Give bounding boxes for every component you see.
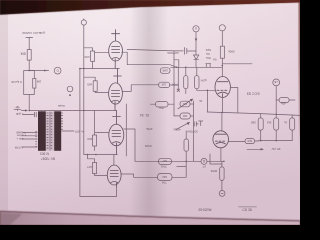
secondary winding bar <box>54 111 61 151</box>
coupling cap C1 <box>174 48 196 55</box>
svg-text:45k: 45k <box>281 102 286 106</box>
bus y=154.5 <box>84 155 118 166</box>
svg-text:560: 560 <box>250 121 255 125</box>
Ra wiring <box>84 48 109 69</box>
svg-text:20/700A: 20/700A <box>187 130 198 134</box>
terminal T1 <box>81 20 86 25</box>
svg-text:2M: 2M <box>36 79 41 83</box>
svg-text:1k: 1k <box>284 121 288 125</box>
bus wire y=110.5 <box>29 110 116 112</box>
Rb wiring <box>84 77 109 92</box>
cathode resistor Rk <box>220 167 224 181</box>
svg-text:?041: ?041 <box>160 165 167 169</box>
terminal T3 <box>219 25 225 31</box>
svg-text:500k: 500k <box>228 49 235 53</box>
RC parallel loop wires <box>24 71 35 111</box>
coupling bus y=68.5 <box>80 68 120 70</box>
Rk wires <box>221 161 223 190</box>
svg-text:?04: ?04 <box>162 181 167 185</box>
F leads <box>174 101 194 161</box>
terminal T4 <box>273 79 280 86</box>
grid resistor Rd <box>93 162 97 173</box>
svg-text:ECC 83: ECC 83 <box>247 92 260 96</box>
400X stubs <box>185 131 187 177</box>
divider resistor C (vertical) <box>184 76 188 89</box>
Rd wiring <box>88 155 108 176</box>
svg-text:#tut5t-b3: #tut5t-b3 <box>198 208 211 212</box>
annotation arrow 25mV <box>247 148 261 150</box>
stub pair near V5 grid <box>177 165 186 167</box>
pill1 resistor on bus <box>159 158 172 164</box>
wire T1 down <box>83 25 85 110</box>
svg-text:CD 38: CD 38 <box>242 208 252 212</box>
svg-text:042: 042 <box>162 175 167 179</box>
svg-text:X004: X004 <box>144 144 151 148</box>
input terminal bar <box>26 36 33 38</box>
V5 plate from bus <box>221 112 223 131</box>
transformer core lines <box>50 112 51 151</box>
svg-text:0A: 0A <box>206 52 210 56</box>
svg-text:6k8: 6k8 <box>247 139 252 143</box>
V5 grid branch <box>210 154 222 164</box>
dropper resistor 3 <box>290 118 295 130</box>
divider top bus <box>171 66 223 68</box>
pot arrow 2 <box>176 123 187 129</box>
T3 wire <box>221 31 223 46</box>
supply bus y=112.2 <box>207 112 300 115</box>
dropper stubs <box>261 114 293 141</box>
svg-text:3054: 3054 <box>210 169 217 173</box>
tap labels column <box>14 130 26 149</box>
svg-text:?04: ?04 <box>159 106 164 110</box>
pill H6 feedback resistor <box>245 139 255 144</box>
divider resistor D (vertical) <box>195 76 199 89</box>
bus2 y=161.3 <box>135 160 224 162</box>
svg-text:a: a <box>195 26 197 30</box>
pill A (resistor) <box>160 68 170 74</box>
svg-text:b: b <box>57 68 59 72</box>
svg-text:& 0?M: & 0?M <box>14 145 23 149</box>
terminal T5 <box>219 191 225 197</box>
left edge shading <box>0 13 8 213</box>
svg-text:?0A: ?0A <box>206 56 211 60</box>
secondary tap leads <box>23 133 38 147</box>
winding tick columns <box>46 112 54 151</box>
svg-text:22/700A: 22/700A <box>166 51 178 55</box>
svg-text:+B: +B <box>274 80 278 84</box>
H45L leads <box>276 99 295 101</box>
svg-text:k00: k00 <box>87 137 92 141</box>
node N2 circle <box>67 86 73 92</box>
resistor 400X vertical <box>184 139 189 151</box>
svg-text:047: 047 <box>162 159 167 163</box>
pill H45L resistor <box>279 98 289 103</box>
grid resistor Rb <box>93 81 97 92</box>
tube V3 (ECC83 half) <box>215 77 230 98</box>
dropper resistor 2 <box>274 118 279 130</box>
junction <box>28 70 30 72</box>
T4 wire down <box>275 86 277 115</box>
V5 cathode down <box>220 148 222 162</box>
svg-text:25 mV: 25 mV <box>271 147 281 151</box>
svg-text:dvp +: dvp + <box>16 137 23 141</box>
transformer right lead <box>62 130 74 132</box>
V4 right wire down to bus2 <box>124 129 135 161</box>
grid resistor Rc <box>93 135 97 146</box>
right edge sliver <box>299 3 300 159</box>
bottom-left darker corner <box>0 213 22 225</box>
G2 right lead <box>190 103 194 105</box>
pot arrow 1 <box>178 100 191 109</box>
primary winding bar <box>38 111 46 151</box>
ground symbol (flipped) <box>14 106 21 110</box>
svg-text:.gniE-FN: .gniE-FN <box>33 31 45 35</box>
svg-text:0.1µ/40: 0.1µ/40 <box>11 80 22 84</box>
Rc wiring <box>95 111 109 151</box>
grid resistor Ra <box>91 51 95 61</box>
svg-text:??04: ??04 <box>172 83 179 87</box>
pill E (resistor) <box>156 102 169 110</box>
resistor R1 <box>27 50 31 61</box>
svg-text:d+qw: d+qw <box>57 104 65 108</box>
x174 lower extension <box>173 104 175 116</box>
y=64 wire right <box>222 63 252 65</box>
pill G2 trimmer <box>180 101 190 107</box>
svg-text:450Ω: 450Ω <box>173 128 181 132</box>
meter circle <box>201 158 207 164</box>
svg-text:mV022: mV022 <box>22 31 32 35</box>
tube V6 <box>107 165 121 187</box>
svg-text:k00: k00 <box>84 55 89 59</box>
V1 right side wires <box>122 49 177 67</box>
transformer top-left lead with cap marks <box>23 112 37 117</box>
pill F resistor <box>180 113 190 119</box>
pill B (resistor) <box>159 82 170 87</box>
svg-text:16: 16 <box>199 99 202 103</box>
svg-text:M 903: M 903 <box>40 152 49 156</box>
cap C3 <box>194 121 203 126</box>
wire <box>28 60 30 70</box>
label: input annotation text <box>22 31 46 35</box>
tube V1 <box>109 30 123 69</box>
V6 right wire <box>121 174 158 177</box>
diode labels <box>205 48 211 60</box>
node arrow to node label <box>29 70 48 72</box>
H6 right lead <box>255 140 259 142</box>
V5 right wire to H6 <box>229 141 246 143</box>
svg-text:+ whon: + whon <box>16 134 26 138</box>
diode to divider <box>195 59 197 67</box>
wiper vertical with x mark <box>177 67 180 91</box>
arrow into junction <box>22 110 26 112</box>
svg-text:V?: V? <box>202 164 206 168</box>
svg-text:1M5: 1M5 <box>162 68 168 72</box>
svg-text:EL 34: EL 34 <box>140 113 149 117</box>
svg-text:BV 73087: BV 73087 <box>41 156 55 160</box>
tube V2 <box>109 69 123 111</box>
x=207.4 vertical <box>206 90 208 112</box>
wire x=84 down <box>83 111 85 155</box>
svg-text:80k: 80k <box>20 52 26 56</box>
svg-text:k0?: k0? <box>87 165 92 169</box>
svg-text:4+ S0?: 4+ S0? <box>74 129 84 133</box>
svg-text:k00: k00 <box>87 83 92 87</box>
bottom bus right <box>259 140 293 142</box>
vertical x=174 <box>173 51 175 104</box>
long left return wire <box>80 69 117 197</box>
svg-text:SZ4: SZ4 <box>205 48 211 52</box>
wire <box>28 37 30 49</box>
T2 wire with arrow <box>195 32 197 55</box>
pill2 right lead <box>172 176 186 178</box>
C,D stubs <box>186 67 197 93</box>
svg-text:1M: 1M <box>161 83 166 87</box>
svg-text:470k: 470k <box>146 127 153 131</box>
V3 cathode down <box>222 97 224 112</box>
tube V4 <box>109 111 124 155</box>
node N1 circle <box>54 67 61 74</box>
wire to V3 <box>221 58 223 76</box>
diode D1 <box>194 55 199 59</box>
svg-text:0A: 0A <box>213 58 217 62</box>
bottom paper edge shadow line <box>0 211 300 221</box>
tube V5 (ECC83 half) <box>213 131 229 148</box>
svg-text:q2%: q2% <box>200 78 206 82</box>
V3 right side loop wire <box>230 88 237 113</box>
svg-text:2k2: 2k2 <box>266 121 271 125</box>
V2 right side wire to bias <box>122 85 158 92</box>
terminal T2 <box>193 26 199 32</box>
resistor R2 <box>33 78 36 88</box>
svg-text:+ gob: + gob <box>15 112 23 116</box>
pill2 resistor <box>158 174 173 181</box>
cap C2 symbol <box>206 64 211 68</box>
svg-text:150: 150 <box>182 114 187 118</box>
pill B right lead + label <box>170 84 179 86</box>
long vertical right of tubes <box>125 104 127 156</box>
resistor R500 <box>220 46 224 58</box>
bottom below-edge region <box>0 212 300 225</box>
dropper resistor 1 <box>258 118 263 130</box>
fold shadow band <box>130 4 168 219</box>
grid wire to V3 <box>197 89 215 91</box>
pill E leads <box>151 103 175 105</box>
